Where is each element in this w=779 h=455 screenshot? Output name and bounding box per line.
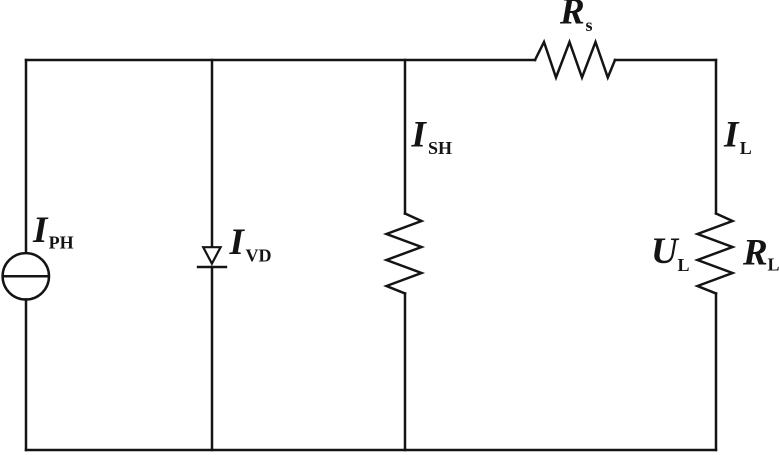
svg-text:R: R (559, 0, 585, 33)
label IVD (229, 222, 272, 265)
svg-text:s: s (586, 15, 593, 35)
current source IPH bar (3, 275, 49, 278)
wire right branch lower (715, 294, 718, 451)
diode VD triangle (203, 247, 220, 263)
wire left branch lower (25, 300, 28, 451)
label IL (723, 115, 752, 159)
wire RSH branch upper (404, 60, 407, 214)
diode VD cathode bar (197, 266, 227, 269)
wire diode branch lower (211, 267, 214, 450)
wire top horizontal left (node to Rs) (26, 59, 535, 62)
label RL (742, 232, 779, 274)
resistor RSH zigzag (387, 214, 422, 294)
svg-text:L: L (678, 255, 690, 275)
wire diode branch upper (211, 60, 214, 247)
wire right branch upper (715, 60, 718, 214)
label ISH (411, 114, 453, 158)
resistor RL zigzag (698, 214, 733, 294)
svg-text:L: L (740, 138, 752, 158)
label UL (651, 231, 690, 275)
wire bottom horizontal (26, 449, 716, 452)
svg-text:SH: SH (428, 138, 452, 158)
svg-text:R: R (742, 232, 768, 273)
svg-text:VD: VD (246, 245, 272, 265)
label IPH (32, 210, 74, 253)
current source IPH circle (3, 253, 49, 299)
label Rs (559, 0, 593, 35)
svg-text:I: I (411, 114, 428, 155)
svg-text:U: U (651, 231, 680, 272)
svg-text:L: L (768, 255, 779, 275)
wire RSH branch lower (404, 294, 407, 451)
wire left branch upper (25, 60, 28, 253)
wire top horizontal right (Rs to right branch) (615, 59, 716, 62)
svg-text:I: I (229, 222, 246, 263)
svg-text:I: I (32, 210, 49, 251)
resistor Rs zigzag (535, 42, 615, 78)
svg-text:PH: PH (49, 233, 74, 253)
svg-text:I: I (723, 115, 740, 156)
